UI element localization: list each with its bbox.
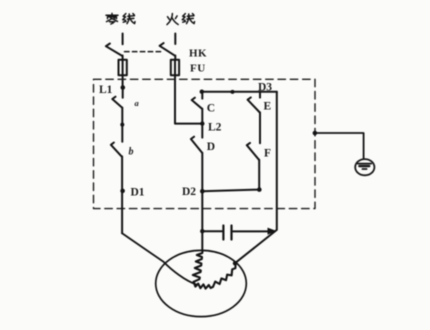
wire D2 to F bottom [202, 190, 259, 192]
fuse FU 2 [171, 60, 179, 76]
svg-text:E: E [264, 101, 272, 113]
svg-text:L1: L1 [99, 84, 113, 96]
wire live stub [174, 34, 176, 45]
switch E (blade) [248, 97, 260, 112]
wire through fuse 1 [122, 60, 124, 86]
node on box right edge [313, 131, 318, 136]
svg-text:D2: D2 [182, 186, 196, 198]
svg-text:F: F [264, 148, 271, 160]
junction dot capacitor [200, 229, 204, 233]
main winding (vertical coil) [193, 251, 203, 282]
svg-text:L2: L2 [208, 122, 222, 134]
node bar left [200, 90, 204, 94]
wire a to b [121, 108, 123, 142]
wire F down to junction [258, 160, 260, 190]
svg-text:C: C [207, 103, 215, 115]
dashed control box [94, 79, 316, 208]
switch a (blade) [112, 97, 122, 108]
wire C to D [201, 109, 203, 138]
wire bar to switch C [201, 92, 203, 99]
label 零线 (neutral line) [106, 13, 135, 24]
wire to indicator [315, 133, 364, 159]
switch HK linkage (dashed) [125, 51, 162, 53]
node F bottom [257, 187, 262, 192]
wire blade to fuse [122, 56, 124, 61]
svg-text:HK: HK [189, 48, 207, 60]
left lead into motor [122, 233, 196, 284]
switch D (blade) [191, 137, 202, 153]
arrow junction at right lead [268, 228, 277, 235]
wire neutral stub [122, 34, 124, 45]
fuse FU 1 [119, 60, 127, 76]
wire through fuse 2 down to L2 corner [175, 60, 202, 124]
switch HK pole 1 (blade) [106, 44, 123, 57]
node L2 [200, 121, 204, 125]
node L1 [121, 85, 126, 90]
node D2 [200, 189, 205, 194]
switch HK pole 2 (blade) [160, 43, 176, 56]
motor body ellipse [156, 250, 247, 316]
junction dot between a and b [120, 123, 124, 127]
indicator lamp circle [355, 159, 374, 175]
wire D3 corner down to motor bend [235, 92, 277, 264]
switch C (blade) [192, 98, 202, 109]
switch b (blade) [111, 143, 122, 157]
svg-text:D: D [207, 141, 215, 153]
capacitor C plates [223, 226, 231, 240]
wire b to D1 and down to motor bend [121, 156, 123, 233]
junction dot motor right [233, 261, 237, 265]
label 火线 (live line) [167, 14, 195, 25]
wire E to F [259, 113, 261, 144]
wire bar to switch E [259, 92, 261, 98]
wire L1 to switch a [122, 86, 124, 98]
node bar middle [231, 90, 235, 94]
svg-text:FU: FU [190, 63, 206, 75]
wire blade to fuse 2 [174, 56, 176, 61]
winding bottom scribble [194, 282, 213, 289]
switch F (blade) [247, 143, 259, 160]
indicator earth bars [358, 163, 372, 165]
svg-text:b: b [129, 147, 134, 158]
svg-text:D1: D1 [131, 187, 145, 199]
aux winding (horizontal coil) [213, 264, 236, 287]
capacitor wire right [233, 230, 268, 232]
wire D to D2 and down to motor [201, 153, 203, 251]
bus bar D3 [202, 91, 277, 93]
capacitor wire left [202, 230, 222, 232]
node D1 [120, 189, 125, 194]
